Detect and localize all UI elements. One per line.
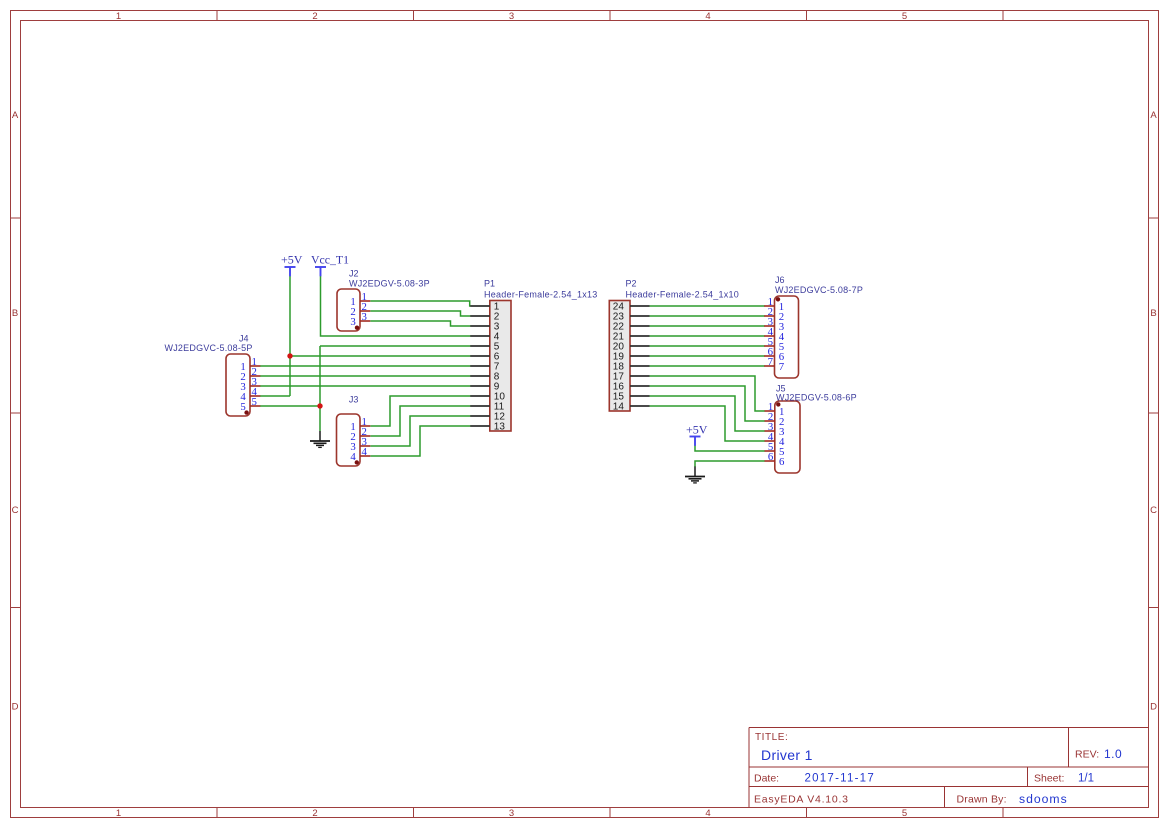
J4 pin 4 — [240, 386, 260, 403]
J4 pin 3 — [240, 376, 260, 393]
P1 pin 5 — [470, 342, 500, 353]
J4 pin 1 — [240, 356, 260, 373]
svg-text:D: D — [12, 702, 19, 713]
J2 pin 1 — [350, 291, 370, 308]
J5 pin 6 — [765, 451, 786, 468]
svg-text:EasyEDA V4.10.3: EasyEDA V4.10.3 — [754, 794, 849, 806]
P2 pin 16 — [613, 382, 650, 393]
wire +5V to P1.6 — [290, 355, 471, 357]
P1 pin 2 — [470, 312, 500, 323]
svg-text:1: 1 — [116, 808, 121, 819]
svg-text:D: D — [1150, 702, 1157, 713]
svg-text:Date:: Date: — [754, 773, 779, 785]
P1 pin 11 — [470, 402, 504, 413]
svg-text:TITLE:: TITLE: — [755, 732, 788, 743]
wire P2.22 to J6.3 — [650, 325, 765, 327]
J5 pin 4 — [765, 431, 786, 448]
J6 pin 2 — [764, 306, 784, 323]
svg-text:5: 5 — [902, 11, 907, 22]
P2 pin 21 — [613, 332, 650, 343]
wire Vcc_T1 to P1.4 — [321, 276, 471, 336]
P2 pin 24 — [613, 302, 650, 313]
wire GND to P1.5 — [320, 345, 471, 347]
wire P2.17 to J5.1 — [650, 376, 765, 411]
P2 pin 15 — [613, 392, 650, 403]
connector J4 — [165, 334, 253, 416]
wire J3.1 to P1.10 — [370, 396, 470, 426]
junction GND / J4.5 node — [317, 403, 322, 408]
svg-text:+5V: +5V — [686, 423, 708, 437]
J6 pin 5 — [764, 336, 784, 353]
svg-text:3: 3 — [509, 808, 514, 819]
J3 pin 4 — [350, 446, 370, 463]
wire J4.5 to GND — [260, 405, 320, 407]
J6 pin 4 — [764, 326, 785, 343]
P2 pin 17 — [613, 372, 650, 383]
J6 pin 6 — [764, 346, 785, 363]
svg-text:2: 2 — [312, 11, 317, 22]
wire P2.20 to J6.5 — [650, 345, 765, 347]
svg-text:B: B — [1150, 308, 1156, 319]
J6 pin 1 — [764, 296, 784, 313]
svg-text:4: 4 — [362, 446, 368, 458]
svg-text:WJ2EDGVC-5.08-7P: WJ2EDGVC-5.08-7P — [775, 285, 863, 295]
svg-text:Sheet:: Sheet: — [1034, 773, 1064, 785]
svg-text:sdooms: sdooms — [1019, 792, 1068, 806]
wire P2.23 to J6.2 — [650, 315, 765, 317]
connector J2 — [337, 268, 430, 331]
wire P2.21 to J6.4 — [650, 335, 765, 337]
J6 pin 3 — [764, 316, 784, 333]
svg-text:Header-Female-2.54_1x10: Header-Female-2.54_1x10 — [626, 290, 740, 300]
svg-text:C: C — [12, 505, 19, 516]
net label Vcc_T1 — [311, 253, 349, 277]
P2 pin 22 — [613, 322, 650, 333]
svg-text:J3: J3 — [349, 394, 359, 404]
J3 pin 1 — [350, 416, 370, 433]
svg-text:4: 4 — [705, 11, 710, 22]
J3 pin 3 — [350, 436, 370, 453]
svg-text:6: 6 — [779, 456, 785, 468]
wire P2.24 to J6.1 — [650, 305, 765, 307]
title block — [749, 728, 1149, 808]
junction +5V / P1.6 node — [287, 353, 292, 358]
P1 pin 12 — [470, 412, 505, 423]
P1 pin 13 — [470, 422, 505, 433]
P1 pin 4 — [470, 332, 500, 343]
svg-text:WJ2EDGV-5.08-6P: WJ2EDGV-5.08-6P — [776, 392, 857, 402]
J6 pin 7 — [764, 356, 785, 373]
P1 pin 3 — [470, 322, 500, 333]
wire P2.18 to J6.7 — [650, 365, 765, 367]
J4 pin 2 — [240, 366, 260, 383]
wire J4.2 to P1.8 — [260, 375, 471, 377]
wire P2.15 to J5.3 — [650, 396, 765, 431]
connector J3 — [337, 394, 361, 466]
P2 pin 20 — [613, 342, 650, 353]
svg-text:C: C — [1150, 505, 1157, 516]
svg-text:3: 3 — [509, 11, 514, 22]
P2 pin 14 — [613, 402, 650, 413]
wire +5V to J5.5 — [695, 446, 765, 452]
svg-text:5: 5 — [252, 396, 257, 408]
svg-text:A: A — [1150, 110, 1157, 121]
svg-text:J2: J2 — [349, 268, 359, 278]
wire J2.2 to P1.2 — [370, 311, 470, 316]
wire P2.14 to J5.4 — [650, 406, 765, 441]
J5 pin 1 — [765, 401, 785, 418]
power symbol +5V (left) — [281, 253, 303, 277]
wire J3.4 to P1.13 — [370, 426, 470, 456]
wire +5V to J4.4 — [260, 395, 290, 397]
J4 pin 5 — [240, 396, 260, 413]
svg-text:WJ2EDGV-5.08-3P: WJ2EDGV-5.08-3P — [349, 279, 430, 289]
wire J3.3 to P1.12 — [370, 416, 470, 446]
P1 pin 10 — [470, 392, 505, 403]
svg-text:1.0: 1.0 — [1104, 747, 1122, 761]
svg-text:5: 5 — [240, 401, 245, 413]
wire J4.1 to P1.7 — [260, 365, 471, 367]
wire J3.2 to P1.11 — [370, 406, 470, 436]
svg-text:14: 14 — [613, 402, 625, 413]
svg-text:Header-Female-2.54_1x13: Header-Female-2.54_1x13 — [484, 290, 598, 300]
P1 pin 8 — [470, 372, 500, 383]
P1 pin 6 — [470, 352, 500, 363]
svg-text:+5V: +5V — [281, 253, 303, 267]
svg-text:5: 5 — [902, 808, 907, 819]
svg-text:P2: P2 — [626, 278, 637, 288]
J5 pin 3 — [765, 421, 785, 438]
wire J2.3 to P1.3 — [370, 321, 470, 326]
svg-text:7: 7 — [768, 356, 774, 368]
P2 pin 18 — [613, 362, 650, 373]
svg-text:3: 3 — [362, 311, 367, 323]
svg-text:A: A — [12, 110, 19, 121]
wire J4.3 to P1.9 — [260, 385, 471, 387]
header P2 — [609, 278, 739, 411]
J3 pin 2 — [350, 426, 370, 443]
J2 pin 2 — [350, 301, 370, 318]
wire +5V vertical — [289, 276, 291, 396]
svg-text:7: 7 — [779, 361, 785, 373]
wire P2.19 to J6.6 — [650, 355, 765, 357]
power symbol +5V (right) — [686, 423, 708, 446]
svg-text:13: 13 — [494, 422, 506, 433]
svg-text:P1: P1 — [484, 278, 495, 288]
ground (left) — [310, 431, 330, 447]
P1 pin 1 — [470, 302, 500, 313]
P1 pin 9 — [470, 382, 500, 393]
header P1 — [484, 278, 598, 431]
wire J2.1 to P1.1 — [370, 301, 470, 306]
P1 pin 7 — [470, 362, 500, 373]
svg-text:6: 6 — [768, 451, 774, 463]
svg-text:4: 4 — [705, 808, 710, 819]
J2 pin 3 — [350, 311, 370, 328]
svg-text:WJ2EDGVC-5.08-5P: WJ2EDGVC-5.08-5P — [165, 343, 253, 353]
wire GND to J5.6 — [695, 461, 765, 467]
wire GND riser — [319, 346, 321, 431]
svg-text:REV:: REV: — [1075, 749, 1099, 761]
svg-text:2: 2 — [312, 808, 317, 819]
P2 pin 23 — [613, 312, 650, 323]
svg-text:4: 4 — [350, 451, 356, 463]
P2 pin 19 — [613, 352, 650, 363]
svg-text:2017-11-17: 2017-11-17 — [805, 773, 875, 785]
ground (right) — [685, 467, 705, 483]
wire P2.16 to J5.2 — [650, 386, 765, 421]
svg-text:Driver 1: Driver 1 — [761, 747, 813, 763]
svg-text:B: B — [12, 308, 18, 319]
J5 pin 2 — [765, 411, 785, 428]
svg-text:Drawn By:: Drawn By: — [957, 794, 1007, 806]
svg-text:J6: J6 — [775, 275, 785, 285]
svg-text:3: 3 — [350, 316, 355, 328]
J5 pin 5 — [765, 441, 785, 458]
connector J5 — [775, 383, 857, 473]
svg-text:1/1: 1/1 — [1078, 773, 1094, 785]
svg-text:Vcc_T1: Vcc_T1 — [311, 253, 349, 267]
connector J6 — [775, 275, 864, 378]
svg-text:1: 1 — [116, 11, 121, 22]
